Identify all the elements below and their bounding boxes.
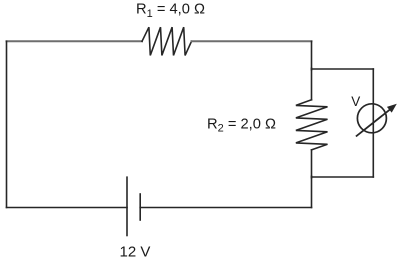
voltmeter V1 arrowhead	[387, 104, 397, 113]
voltmeter V1 circle	[357, 104, 386, 133]
node junction top (branch tap)	[311, 68, 313, 70]
node junction bottom (branch tap)	[311, 176, 313, 178]
wire bottom-right segment	[140, 207, 311, 209]
wire voltmeter branch bottom	[312, 176, 374, 178]
battery B1 long plate (+)	[126, 177, 128, 235]
svg-text:V: V	[351, 94, 360, 109]
wire top-right segment	[192, 40, 312, 42]
wire top-left segment	[7, 40, 143, 42]
wire voltmeter branch right vertical	[372, 69, 374, 177]
svg-text:R1 = 4,0 Ω: R1 = 4,0 Ω	[136, 2, 205, 20]
wire right lower (R2 to bottom corner)	[311, 150, 313, 208]
resistor R1	[142, 27, 192, 55]
battery B1 short plate (-)	[139, 194, 141, 220]
resistor R2	[296, 100, 328, 150]
wire voltmeter branch top	[312, 68, 374, 70]
svg-text:12 V: 12 V	[120, 244, 151, 261]
voltmeter V1 needle arrow	[357, 110, 390, 136]
svg-text:R2 = 2,0 Ω: R2 = 2,0 Ω	[207, 117, 276, 135]
wire right upper (to R2)	[311, 41, 313, 100]
wire bottom-left segment	[7, 207, 128, 209]
wire left segment	[6, 41, 8, 207]
